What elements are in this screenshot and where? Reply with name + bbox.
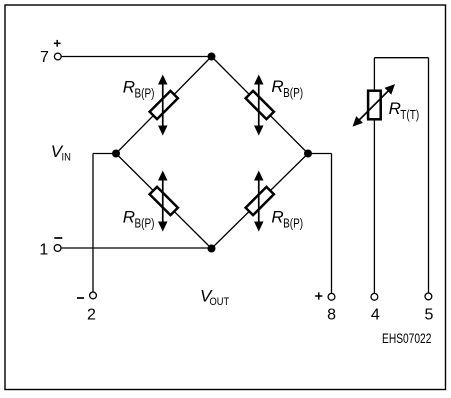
svg-text:R: R bbox=[123, 78, 135, 97]
wire bridge edge top-right bbox=[212, 57, 309, 154]
thermistor RT(T) variability arrow bbox=[349, 81, 398, 130]
wire bridge edge bottom-left bbox=[116, 154, 212, 249]
wire bridge edge top-left bbox=[116, 57, 212, 154]
node bottom junction bbox=[208, 245, 216, 253]
polarity - at terminal 2 bbox=[77, 297, 84, 299]
svg-text:R: R bbox=[389, 99, 401, 118]
thermistor RT(T) body bbox=[368, 91, 381, 120]
resistor RB(P) top-left body bbox=[150, 91, 178, 119]
label RB(P) top-left bbox=[123, 78, 155, 101]
terminal 8 circle bbox=[328, 293, 335, 300]
svg-text:2: 2 bbox=[87, 306, 96, 323]
node top junction bbox=[208, 53, 216, 61]
wire thermistor top horizontal bbox=[374, 57, 428, 59]
wire down to terminal 2 bbox=[92, 154, 94, 292]
node right junction bbox=[304, 150, 312, 158]
svg-text:4: 4 bbox=[371, 306, 380, 323]
wire down to terminal 5 bbox=[428, 58, 430, 293]
resistor RB(P) top-right body bbox=[246, 91, 274, 119]
wire terminal 1 to bottom node bbox=[61, 247, 211, 249]
wire thermistor top lead bbox=[373, 58, 375, 90]
label VIN bbox=[51, 142, 71, 164]
svg-text:B(P): B(P) bbox=[135, 88, 155, 101]
wire top: terminal 7 to top node bbox=[62, 56, 212, 58]
svg-text:EHS07022: EHS07022 bbox=[382, 330, 432, 346]
resistor RB(P) top-left variability arrow bbox=[158, 75, 168, 136]
svg-text:7: 7 bbox=[40, 49, 49, 66]
resistor RB(P) top-right variability arrow bbox=[254, 75, 264, 136]
wire bridge edge bottom-right bbox=[212, 154, 309, 249]
svg-text:IN: IN bbox=[62, 152, 71, 164]
resistor RB(P) bottom-left variability arrow bbox=[158, 171, 168, 232]
svg-text:OUT: OUT bbox=[210, 296, 230, 308]
label VOUT bbox=[200, 287, 229, 309]
label RB(P) bottom-left bbox=[123, 207, 155, 230]
terminal 4 circle bbox=[371, 293, 378, 300]
svg-text:B(P): B(P) bbox=[283, 217, 303, 230]
wire right node stub bbox=[308, 153, 332, 155]
svg-text:5: 5 bbox=[424, 306, 433, 323]
svg-text:R: R bbox=[271, 207, 283, 226]
polarity + at terminal 7 bbox=[54, 40, 61, 47]
node left junction bbox=[112, 150, 120, 158]
svg-text:R: R bbox=[271, 77, 283, 96]
wire thermistor bottom lead to terminal 4 bbox=[373, 120, 375, 293]
svg-text:R: R bbox=[123, 207, 135, 226]
terminal 5 circle bbox=[425, 293, 432, 300]
wire left node stub bbox=[93, 153, 116, 155]
wire down to terminal 8 bbox=[331, 154, 333, 294]
svg-text:8: 8 bbox=[327, 306, 336, 323]
polarity + at terminal 8 bbox=[315, 292, 322, 299]
label RB(P) bottom-right bbox=[271, 207, 303, 230]
terminal 1 circle bbox=[54, 245, 61, 252]
resistor RB(P) bottom-right variability arrow bbox=[254, 171, 264, 232]
terminal 2 circle bbox=[90, 292, 97, 299]
polarity - at terminal 1 bbox=[54, 237, 62, 239]
resistor RB(P) bottom-right body bbox=[246, 187, 274, 215]
label RT(T) bbox=[389, 99, 420, 122]
svg-text:T(T): T(T) bbox=[400, 109, 419, 122]
label RB(P) top-right bbox=[271, 77, 303, 100]
svg-text:1: 1 bbox=[39, 242, 48, 259]
svg-text:B(P): B(P) bbox=[283, 87, 303, 100]
terminal 7 circle bbox=[54, 53, 61, 60]
resistor RB(P) bottom-left body bbox=[150, 187, 178, 215]
svg-text:B(P): B(P) bbox=[135, 217, 155, 230]
